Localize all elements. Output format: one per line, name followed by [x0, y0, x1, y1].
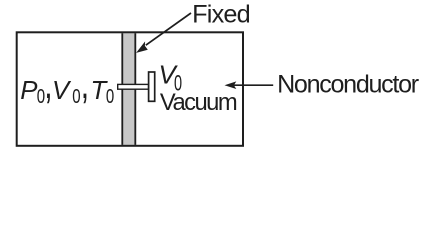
partition right edge	[134, 33, 136, 145]
partition (fixed wall) fill	[121, 33, 136, 145]
Fixed arrowhead	[136, 41, 148, 53]
Fixed arrow shaft	[146, 13, 191, 45]
label P0, V0, T0 (left chamber state)	[20, 61, 114, 107]
svg-text:0: 0	[72, 85, 80, 108]
partition left edge	[121, 33, 123, 145]
label Vacuum	[160, 89, 237, 116]
container box	[17, 32, 243, 146]
label Nonconductor	[277, 70, 419, 98]
label V0 (right chamber volume)	[159, 60, 183, 96]
svg-text:Nonconductor: Nonconductor	[277, 70, 419, 98]
svg-text:Vacuum: Vacuum	[160, 89, 237, 116]
svg-text:V: V	[52, 77, 72, 105]
svg-text:,: ,	[81, 62, 89, 107]
Nonconductor arrowhead	[225, 81, 237, 89]
label Fixed	[192, 1, 250, 29]
svg-text:P: P	[20, 77, 38, 105]
svg-text:0: 0	[106, 85, 114, 108]
valve plate	[149, 72, 155, 101]
Nonconductor arrow shaft	[234, 84, 273, 86]
valve rod	[118, 84, 149, 89]
svg-text:Fixed: Fixed	[192, 1, 250, 29]
